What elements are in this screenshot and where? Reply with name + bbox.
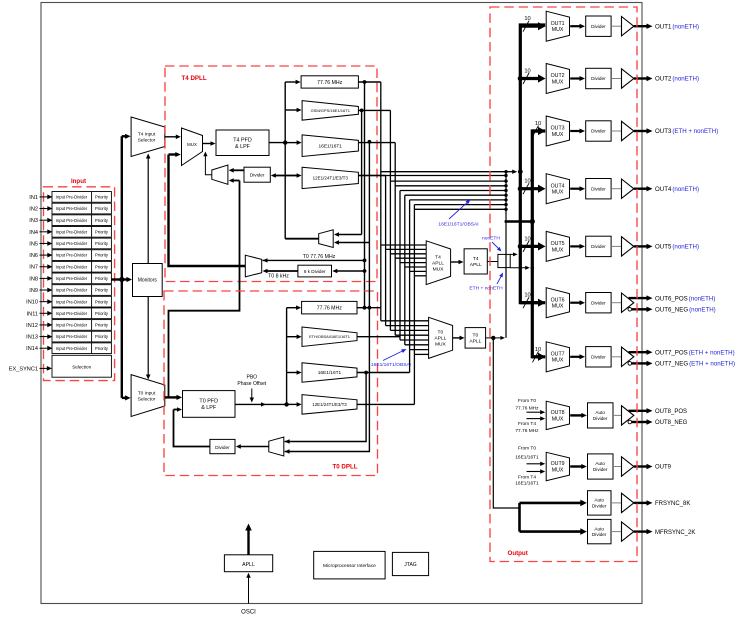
T0 12E1/24T1 divider bank xyxy=(302,395,357,415)
node bundle row 6 junction xyxy=(504,194,507,197)
OUT5 MUX xyxy=(546,231,569,261)
svg-text:OUT9: OUT9 xyxy=(655,465,672,471)
svg-text:10: 10 xyxy=(524,16,530,22)
svg-text:OUT3(ETH + nonETH): OUT3(ETH + nonETH) xyxy=(655,128,718,135)
svg-text:OUT6_NEG(nonETH): OUT6_NEG(nonETH) xyxy=(655,307,716,314)
T4 77.76 MHz divider block xyxy=(301,76,358,88)
T0 PFD & LPF block xyxy=(183,391,236,418)
node 8k divider tap xyxy=(363,269,367,273)
wire column 8 into T4 APLL mux xyxy=(414,275,426,277)
wire OUT2 mux to divider xyxy=(570,77,580,79)
svg-text:EX_SYNC1: EX_SYNC1 xyxy=(9,367,38,373)
svg-text:Input Pre-Divider: Input Pre-Divider xyxy=(56,276,88,281)
wire bundle column 8 xyxy=(413,205,415,355)
wire T4 12E1 output to bundle xyxy=(358,175,385,177)
wire OUT9 output xyxy=(634,465,648,467)
svg-text:Priority: Priority xyxy=(95,311,109,316)
svg-text:T0 8 kHz: T0 8 kHz xyxy=(268,274,289,280)
svg-text:Divider: Divider xyxy=(591,76,606,81)
T0 77.76 MHz feedback wire xyxy=(364,82,366,308)
wire T0 APLL output into collector xyxy=(493,337,501,339)
input pre-divider row 1 xyxy=(52,192,111,203)
wire column 8 into T0 APLL mux xyxy=(414,353,428,355)
OUT1 MUX xyxy=(546,11,569,41)
T0 input selector xyxy=(131,375,165,417)
wire OUT7_POS output xyxy=(629,351,648,353)
T4 APLL block xyxy=(464,249,487,274)
svg-text:OUT6_POS(nonETH): OUT6_POS(nonETH) xyxy=(655,295,715,302)
JTAG block xyxy=(392,552,428,575)
wire arrow into 12E1 block xyxy=(285,175,297,177)
OUT2 output buffer xyxy=(622,69,634,88)
wire OUT7 divider to buffer xyxy=(611,356,621,358)
mux M2 (T4 feedback mux) xyxy=(212,165,228,184)
node bundle row 9 junction xyxy=(504,208,507,211)
svg-text:Input Pre-Divider: Input Pre-Divider xyxy=(56,195,88,200)
input section dashed box xyxy=(44,187,115,381)
wire IN7 to pre-divider xyxy=(40,266,49,268)
wire OSCI into APLL xyxy=(248,577,250,604)
T4 PFD & LPF block xyxy=(216,130,269,156)
svg-text:OUT5: OUT5 xyxy=(551,241,565,247)
wire bundle column 6 xyxy=(404,195,406,345)
svg-text:Input Pre-Divider: Input Pre-Divider xyxy=(56,229,88,234)
svg-text:From T4: From T4 xyxy=(518,475,536,481)
wire T4 16E1 output to bundle xyxy=(358,142,395,144)
wire OUT5 output xyxy=(634,245,648,247)
node bus A junction OUT4 xyxy=(518,186,523,191)
wire bundle column 7 xyxy=(409,200,411,350)
wire column 7 into T0 APLL mux xyxy=(410,349,429,351)
wire arrow into T0 input selector xyxy=(122,397,126,399)
wire column 1 into T4 APLL mux xyxy=(381,244,426,246)
wire IN1 to pre-divider xyxy=(40,196,49,198)
wire T4 selector to MUX xyxy=(165,136,177,138)
wire bundle top row into output bus A xyxy=(506,171,513,173)
svg-text:Divider: Divider xyxy=(215,445,230,450)
wire T0 ETH output to staircase xyxy=(357,336,400,338)
wire OUT4 mux to divider xyxy=(570,188,580,190)
wire OUT8 auto divider to buffer xyxy=(613,414,622,416)
svg-text:10: 10 xyxy=(524,236,530,242)
mux M3 (T4 output feedback select) xyxy=(319,230,334,248)
svg-text:OUT8_NEG: OUT8_NEG xyxy=(655,420,688,426)
bus width marker OUT4 xyxy=(523,183,529,194)
svg-text:T0: T0 xyxy=(438,330,444,336)
OUT7 MUX xyxy=(546,342,569,372)
wire bundle row 7 xyxy=(410,199,506,201)
svg-text:10: 10 xyxy=(524,293,530,299)
wire bus feed to OUT4 mux xyxy=(520,187,539,190)
wire frame sync vertical xyxy=(518,503,521,532)
node bundle row 2 junction xyxy=(504,174,507,177)
svg-text:Input Pre-Divider: Input Pre-Divider xyxy=(56,288,88,293)
svg-text:MUX: MUX xyxy=(552,79,564,85)
node T4 77.76 tap xyxy=(363,80,367,84)
svg-text:Divider: Divider xyxy=(591,244,606,249)
svg-text:IN7: IN7 xyxy=(29,265,38,271)
svg-text:Divider: Divider xyxy=(591,300,606,305)
wire OUT2 divider to buffer xyxy=(611,78,621,80)
wire column 3 into T4 APLL mux xyxy=(390,253,426,255)
bus width marker OUT1 xyxy=(523,21,529,32)
svg-text:16E1/16T1/OBSAI: 16E1/16T1/OBSAI xyxy=(438,222,478,228)
wire IN10 to pre-divider xyxy=(40,301,49,303)
svg-text:ETH/OBSAI/16E1/16T1: ETH/OBSAI/16E1/16T1 xyxy=(309,334,350,339)
T4 16E1/16T1 divider bank xyxy=(302,135,358,157)
wire FRSYNC_8K divider to buffer xyxy=(611,502,622,504)
wire IN2 to pre-divider xyxy=(40,208,49,210)
svg-text:Divider: Divider xyxy=(591,24,606,29)
OUT9 auto divider xyxy=(588,454,614,479)
node on bus C at ETH feed xyxy=(531,266,535,270)
OUT8 auto divider xyxy=(588,403,614,428)
svg-text:Divider: Divider xyxy=(250,173,265,178)
svg-text:IN11: IN11 xyxy=(27,311,38,317)
OUT3 divider xyxy=(586,121,611,141)
svg-text:10: 10 xyxy=(524,179,530,185)
wire column 2 into T4 APLL mux xyxy=(386,248,427,250)
wire junction up to T4 input selector xyxy=(121,136,123,279)
svg-text:ETH + nonETH: ETH + nonETH xyxy=(469,286,503,292)
svg-text:Priority: Priority xyxy=(95,264,109,269)
input pre-divider row 3 xyxy=(52,215,111,226)
OUT4 output buffer xyxy=(622,179,634,198)
wire arrow into monitors xyxy=(122,278,128,280)
svg-text:10: 10 xyxy=(535,121,541,127)
wire column 7 into T4 APLL mux xyxy=(410,270,427,272)
wire IN13 to pre-divider xyxy=(40,336,49,338)
bus width marker OUT5 xyxy=(523,241,529,252)
svg-text:MUX: MUX xyxy=(435,342,447,348)
node GSM output tap xyxy=(360,109,364,113)
MFRSYNC_2K output buffer xyxy=(622,522,634,541)
svg-text:From T4: From T4 xyxy=(518,421,536,427)
wire IN6 to pre-divider xyxy=(40,254,49,256)
wire T0 16E1 output to staircase riser xyxy=(357,372,410,374)
wire OUT3 mux to divider xyxy=(570,130,580,132)
wire feedback mux output to mux M1 xyxy=(205,154,211,175)
svg-text:12E1/24T1/E3/T3: 12E1/24T1/E3/T3 xyxy=(313,175,349,180)
wire OUT7_NEG output xyxy=(632,362,648,364)
wire bundle column 3 xyxy=(389,110,391,330)
wire OUT4 output xyxy=(634,187,648,189)
wire OUT8 mux to auto divider xyxy=(570,414,582,416)
OUT7 divider xyxy=(586,347,611,367)
input pre-divider row 11 xyxy=(52,308,111,319)
wire OUT1 divider to buffer xyxy=(611,25,621,27)
wire EX_SYNC1 to selection xyxy=(40,367,48,369)
OUT9 output buffer xyxy=(622,457,634,476)
wire bundle column 5 xyxy=(399,191,401,341)
svg-text:OUT3: OUT3 xyxy=(551,126,565,132)
blue arrow nonETH xyxy=(492,242,499,249)
svg-text:From T0: From T0 xyxy=(518,446,536,452)
wire MFRSYNC_2K divider to buffer xyxy=(611,531,622,533)
svg-text:MUX: MUX xyxy=(552,27,564,33)
svg-text:Input Pre-Divider: Input Pre-Divider xyxy=(56,299,88,304)
wire bundle row 5 xyxy=(400,190,506,192)
wire IN14 to pre-divider xyxy=(40,347,49,349)
svg-text:Priority: Priority xyxy=(95,218,109,223)
svg-text:Selector: Selector xyxy=(138,137,156,143)
svg-text:Priority: Priority xyxy=(95,346,109,351)
wire OUT7 mux to divider xyxy=(570,356,580,358)
wire IN11 to pre-divider xyxy=(40,312,49,314)
wire bundle row 8 xyxy=(414,204,506,206)
svg-text:Input Pre-Divider: Input Pre-Divider xyxy=(56,311,88,316)
svg-text:APLL: APLL xyxy=(470,262,482,268)
svg-text:IN4: IN4 xyxy=(29,230,38,236)
wire mux M1 to T4 PFD xyxy=(203,143,212,145)
node T0 APLL output junction xyxy=(491,336,495,340)
mux M5 (T0 feedback mux) xyxy=(269,437,284,456)
input pre-divider row 2 xyxy=(52,203,111,214)
input pre-divider row 4 xyxy=(52,226,111,237)
wire 16E1 output to mux M3 xyxy=(338,242,369,244)
wire T0 distribution vertical xyxy=(286,308,288,405)
wire 8k divider to mux M4 xyxy=(267,270,298,272)
svg-text:77.76 MHz: 77.76 MHz xyxy=(515,406,539,412)
svg-text:OUT4: OUT4 xyxy=(551,183,565,189)
svg-text:MUX: MUX xyxy=(552,247,564,253)
svg-text:& LPF: & LPF xyxy=(235,144,251,150)
OUT3 output buffer xyxy=(622,121,634,140)
wire column 6 into T0 APLL mux xyxy=(405,344,429,346)
wire OUT1 mux to divider xyxy=(570,25,580,27)
8 k divider block xyxy=(298,265,332,277)
input pre-divider row 8 xyxy=(52,273,111,284)
svg-text:OUT2(nonETH): OUT2(nonETH) xyxy=(655,76,699,83)
wire OUT6 divider to buffer xyxy=(611,302,621,304)
svg-text:OUT1: OUT1 xyxy=(551,21,565,27)
svg-text:FRSYNC_8K: FRSYNC_8K xyxy=(655,501,690,507)
node T0 77.76 junction xyxy=(363,306,367,310)
svg-text:Phase Offset: Phase Offset xyxy=(237,381,266,387)
wire OUT5 mux to divider xyxy=(570,245,580,247)
input pre-divider row 10 xyxy=(52,296,111,307)
wire T4 divider to feedback mux xyxy=(233,169,244,171)
svg-text:OUT8_POS: OUT8_POS xyxy=(655,409,687,415)
svg-text:MUX: MUX xyxy=(552,132,564,138)
OUT2 MUX xyxy=(546,64,569,94)
wire T4 GSM output to bundle xyxy=(358,109,390,111)
bus width marker OUT7 xyxy=(533,351,539,362)
wire T0 77.76 output to staircase xyxy=(357,307,381,309)
bus C vertical xyxy=(532,131,545,357)
wire arrow into T4 input selector xyxy=(122,135,126,137)
T4 input selector xyxy=(131,117,165,157)
svg-text:MUX: MUX xyxy=(552,304,564,310)
OUT8 MUX xyxy=(546,401,569,429)
selection block xyxy=(52,355,111,377)
svg-text:MUX: MUX xyxy=(552,190,564,196)
ETH divider block xyxy=(498,254,510,267)
wire bus feed to OUT6 mux xyxy=(520,301,539,304)
OUT7 inverted output bubble xyxy=(628,362,632,366)
T4 feedback divider block xyxy=(244,167,270,182)
svg-text:16E1/16T1: 16E1/16T1 xyxy=(515,455,539,461)
node bus A junction OUT2 xyxy=(518,76,523,81)
OUT8 inverted output bubble xyxy=(628,420,632,424)
APLL block xyxy=(224,555,272,572)
node bus C collector junction xyxy=(530,219,535,224)
wire GSM output to mux M3 xyxy=(361,110,363,234)
wire OUT9 mux to auto divider xyxy=(570,465,582,467)
svg-text:Priority: Priority xyxy=(95,253,109,258)
svg-text:OUT2: OUT2 xyxy=(551,73,565,79)
wire column 1 into T0 APLL mux xyxy=(381,320,429,322)
wire OUT1 output xyxy=(634,25,648,27)
svg-text:Input Pre-Divider: Input Pre-Divider xyxy=(56,218,88,223)
OUT6 divider xyxy=(586,293,611,313)
T4 12E1/24T1 divider bank xyxy=(302,167,358,188)
svg-text:Priority: Priority xyxy=(95,241,109,246)
wire arrow into T4 divider xyxy=(275,175,285,177)
wire IN3 to pre-divider xyxy=(40,219,49,221)
wire IN9 to pre-divider xyxy=(40,289,49,291)
svg-text:Input Pre-Divider: Input Pre-Divider xyxy=(56,323,88,328)
svg-text:IN2: IN2 xyxy=(29,207,38,213)
wire IN5 to pre-divider xyxy=(40,242,49,244)
svg-text:OUT7: OUT7 xyxy=(551,352,565,358)
wire column 5 into T0 APLL mux xyxy=(400,339,429,341)
svg-text:OUT4(nonETH): OUT4(nonETH) xyxy=(655,186,699,193)
svg-text:16E1/16T1: 16E1/16T1 xyxy=(319,143,343,149)
wire mux M3 output to divider feed xyxy=(285,238,319,240)
svg-text:Divider: Divider xyxy=(591,129,606,134)
wire T0 selector to T0 PFD xyxy=(165,396,178,398)
wire IN4 to pre-divider xyxy=(40,231,49,233)
wire OUT9 auto divider to buffer xyxy=(613,466,622,468)
svg-text:MFRSYNC_2K: MFRSYNC_2K xyxy=(655,530,695,536)
wire collector vertical xyxy=(505,172,507,338)
svg-text:OUT6: OUT6 xyxy=(551,297,565,303)
wire bundle row 6 xyxy=(405,194,506,196)
OUT2 divider xyxy=(586,68,611,88)
svg-text:8 k Divider: 8 k Divider xyxy=(304,269,326,274)
svg-text:Priority: Priority xyxy=(95,195,109,200)
node bundle row 4 junction xyxy=(504,184,507,187)
svg-text:nonETH: nonETH xyxy=(482,236,500,242)
T4 DPLL dashed box xyxy=(165,66,377,282)
T0 16E1/16T1 divider bank xyxy=(302,363,357,383)
svg-text:GSM/GPS/16E1/16T1: GSM/GPS/16E1/16T1 xyxy=(311,108,351,113)
OUT6 output buffer xyxy=(622,293,634,312)
svg-text:APLL: APLL xyxy=(469,339,481,345)
wire column 4 into T4 APLL mux xyxy=(395,257,426,259)
wire column 6 into T4 APLL mux xyxy=(405,266,426,268)
wire FRSYNC_8K output xyxy=(634,502,648,504)
svg-text:JTAG: JTAG xyxy=(404,562,417,568)
node bundle row 1 junction xyxy=(504,170,507,173)
outer chip boundary xyxy=(41,3,642,604)
svg-text:IN10: IN10 xyxy=(26,300,38,306)
svg-text:Selector: Selector xyxy=(138,396,156,402)
mux M1 (T4 reference mux) xyxy=(182,128,203,166)
svg-text:Input: Input xyxy=(71,178,86,185)
wire PBO arrow xyxy=(251,389,253,399)
wire T0 APLL mux to T0 APLL xyxy=(453,337,461,339)
OUT1 divider xyxy=(586,16,611,36)
OUT3 MUX xyxy=(546,116,569,146)
wire mux M5 to T0 divider xyxy=(240,446,269,448)
FRSYNC_8K output buffer xyxy=(622,493,634,512)
input pre-divider row 5 xyxy=(52,238,111,249)
node T0 distribution junction xyxy=(284,402,288,406)
input pre-divider row 7 xyxy=(52,261,111,272)
wire ETH divider ETH+nonETH output into bus C xyxy=(510,267,526,269)
svg-text:IN14: IN14 xyxy=(26,346,38,352)
node bundle row 8 junction xyxy=(504,203,507,206)
wire IN12 to pre-divider xyxy=(40,324,49,326)
svg-text:77.76 MHz: 77.76 MHz xyxy=(317,80,342,86)
svg-text:Monitors: Monitors xyxy=(138,278,158,284)
OUT5 output buffer xyxy=(622,237,634,256)
svg-text:IN6: IN6 xyxy=(29,253,38,259)
wire IN8 to pre-divider xyxy=(40,277,49,279)
svg-text:T4 PFD: T4 PFD xyxy=(233,137,252,143)
svg-text:16E1/16T1: 16E1/16T1 xyxy=(318,370,342,376)
wire arrow into T0 12E1 block xyxy=(287,403,298,405)
svg-text:MUX: MUX xyxy=(433,266,445,272)
wire T4 77.76 output to bundle xyxy=(358,81,380,83)
svg-text:T0 Input: T0 Input xyxy=(138,390,156,396)
input pre-divider row 9 xyxy=(52,285,111,296)
wire T4 PFD output to distribution node xyxy=(269,142,285,144)
wire From T4 into OUT8 mux xyxy=(527,418,542,420)
wire bundle column 4 xyxy=(394,143,396,336)
svg-text:OSCI: OSCI xyxy=(241,610,256,616)
OUT6 MUX xyxy=(546,288,569,318)
wire OUT4 divider to buffer xyxy=(611,188,621,190)
node bundle row 5 junction xyxy=(504,189,507,192)
svg-text:T4: T4 xyxy=(473,256,479,262)
T0 APLL block xyxy=(465,328,486,349)
svg-text:IN8: IN8 xyxy=(29,276,38,282)
wire OUT2 output xyxy=(634,77,648,79)
wire monitors to T0 selector xyxy=(147,297,149,376)
wire T4 APLL mux to T4 APLL xyxy=(451,261,460,263)
svg-text:IN5: IN5 xyxy=(29,241,38,247)
bus width marker OUT6 xyxy=(523,297,529,308)
svg-text:IN3: IN3 xyxy=(29,218,38,224)
wire T4 APLL to ETH divider xyxy=(487,261,498,263)
node bundle row 3 junction xyxy=(504,179,507,182)
svg-text:APLL: APLL xyxy=(242,562,255,568)
svg-text:Input Pre-Divider: Input Pre-Divider xyxy=(56,264,88,269)
svg-text:OUT1(nonETH): OUT1(nonETH) xyxy=(655,23,699,30)
T0 feedback divider block xyxy=(210,439,235,453)
wire T4 16E1 tap down to mux M5 xyxy=(285,142,370,452)
svg-text:Input Pre-Divider: Input Pre-Divider xyxy=(56,346,88,351)
bus A vertical xyxy=(520,25,545,303)
wire OUT6_POS output xyxy=(629,297,648,299)
FRSYNC_8K auto divider xyxy=(588,491,612,515)
OUT8 output buffer xyxy=(622,406,634,425)
MFRSYNC_2K auto divider xyxy=(588,519,612,543)
bus width marker OUT2 xyxy=(523,73,529,84)
svg-text:16E1/16T1: 16E1/16T1 xyxy=(515,481,539,487)
wire OUT8_POS output xyxy=(629,410,648,412)
svg-text:T0: T0 xyxy=(473,333,479,339)
svg-text:Output: Output xyxy=(508,550,528,557)
blue arrow to bundle xyxy=(449,202,468,219)
svg-text:IN9: IN9 xyxy=(29,288,38,294)
node T4 77.76 feedback branch xyxy=(363,259,367,263)
wire bus feed to OUT2 mux xyxy=(520,77,539,80)
wire bundle row 2 xyxy=(358,175,506,177)
